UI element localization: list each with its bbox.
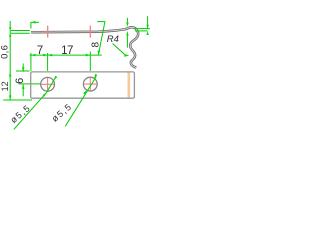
wire: thickness extension lines (0,6) <box>11 31 30 34</box>
wire: bend point reference (right) <box>97 21 105 23</box>
node: arrow up to hole centerline (6) <box>22 84 25 89</box>
node: arrow down right <box>146 25 148 29</box>
part rectangle <box>31 72 135 98</box>
wire: extension line bottom (left) <box>3 99 32 101</box>
hole1 circle <box>41 77 55 91</box>
node: hole1 crosshair <box>41 78 54 91</box>
bend marks (orange) on bar <box>41 31 55 33</box>
node: hole1 centerline tick (side view) <box>47 26 49 38</box>
svg-text:0,6: 0,6 <box>0 45 11 59</box>
wire: hook top extension lines (right) <box>134 28 150 30</box>
node: arrow down to bar top <box>9 27 11 30</box>
node: arrow right at hole2 <box>86 54 91 57</box>
wire: extension line at left edge <box>30 53 32 71</box>
node: arrow down at dim line <box>98 51 101 56</box>
svg-text:12: 12 <box>0 81 10 91</box>
wire: horizontal dimension line 7 / 17 <box>30 54 102 56</box>
svg-text:7: 7 <box>37 45 43 57</box>
node: hole2 crosshair <box>84 78 97 91</box>
wire: side-view sheet profile with hook <box>31 27 138 67</box>
node: arrow down to hook top <box>126 22 129 27</box>
wire: extension line at hole2 <box>89 52 91 71</box>
node: R4 arrowhead <box>124 54 129 57</box>
node: arrow at hole1 lower edge <box>43 92 47 96</box>
top view part outline <box>31 72 135 98</box>
node: hole2 centerline tick (side view) <box>89 26 91 38</box>
bend zone band (orange) <box>128 72 131 97</box>
wire: diameter dim line hole1 <box>14 76 56 129</box>
node: arrow up right below <box>146 31 148 35</box>
wire: R4 leader <box>113 44 125 55</box>
node: arrow left tip at bar start <box>31 21 36 24</box>
wire: extension line hole centerline (left) <box>19 83 41 85</box>
svg-text:R4: R4 <box>107 34 119 45</box>
wire: flat-length dim left corner (side view) <box>30 22 32 29</box>
svg-text:17: 17 <box>61 45 73 57</box>
wire: left combined vertical dimension line (0,6 and 12) <box>9 21 11 100</box>
node: arrow up to bar bottom <box>9 33 11 36</box>
svg-text:8: 8 <box>90 42 101 48</box>
wire: extension line top edge (left) <box>16 70 30 72</box>
node: arrow at hole2 upper edge <box>94 74 97 79</box>
wire: 6-dim upper tail <box>22 64 24 72</box>
node: arrow at hole2 lower edge <box>83 90 86 95</box>
node: arrow up (12 top) <box>9 72 12 77</box>
node: arrow down to top edge (6) <box>22 67 25 72</box>
wire: 6-dim lower tail <box>22 84 24 96</box>
wire: slanted dim line for 8 <box>98 22 105 55</box>
wire: diameter dim line hole2 <box>65 77 96 127</box>
hole2 circle <box>83 77 97 91</box>
wire: extension line at hole1 <box>47 53 49 71</box>
svg-text:6: 6 <box>14 78 26 84</box>
node: arrow at hole1 upper edge <box>54 76 58 81</box>
node: arrow down (12 bottom) <box>9 95 12 100</box>
node: arrows at hole1 <box>43 54 52 57</box>
node: arrow left at x31 <box>31 54 36 57</box>
node: arrow up to hook underside <box>126 31 129 36</box>
wire: right vertical tail <box>147 16 149 29</box>
